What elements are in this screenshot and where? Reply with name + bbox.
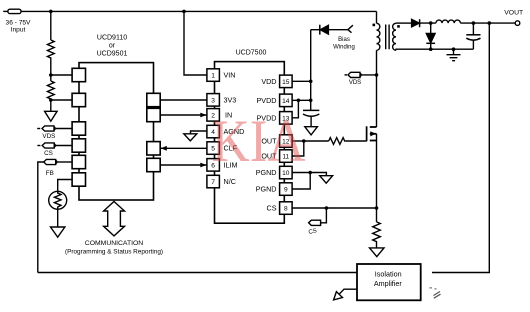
svg-text:3: 3 (211, 97, 215, 104)
svg-text:VDD: VDD (261, 77, 276, 86)
svg-text:15: 15 (282, 79, 290, 86)
svg-text:COMMUNICATION: COMMUNICATION (85, 240, 143, 247)
svg-text:CS: CS (44, 150, 53, 157)
svg-text:PVDD: PVDD (257, 96, 277, 105)
svg-text:(Programming & Status Reportin: (Programming & Status Reporting) (65, 248, 163, 255)
svg-text:VOUT: VOUT (504, 10, 523, 17)
svg-text:3V3: 3V3 (224, 95, 237, 104)
svg-text:14: 14 (282, 98, 290, 105)
svg-text:CS: CS (267, 204, 277, 213)
svg-text:UCD7500: UCD7500 (236, 49, 267, 56)
svg-text:Input: Input (11, 27, 26, 34)
svg-text:CS: CS (308, 228, 318, 236)
svg-text:Bias: Bias (338, 37, 350, 43)
svg-text:8: 8 (284, 206, 288, 213)
svg-text:Winding: Winding (333, 45, 355, 51)
svg-text:Amplifier: Amplifier (374, 279, 403, 288)
svg-text:1: 1 (211, 73, 215, 80)
svg-text:Isolation: Isolation (375, 269, 402, 278)
svg-text:VDS: VDS (42, 133, 55, 140)
svg-text:VIN: VIN (224, 71, 236, 80)
svg-text:36 - 75V: 36 - 75V (6, 20, 32, 27)
svg-text:UCD9501: UCD9501 (97, 51, 128, 58)
svg-text:7: 7 (211, 179, 215, 186)
svg-text:UCD9110: UCD9110 (97, 34, 127, 41)
svg-text:9: 9 (284, 187, 288, 194)
svg-text:FB: FB (46, 170, 54, 177)
svg-text:or: or (109, 43, 116, 50)
svg-text:PGND: PGND (256, 185, 277, 194)
svg-text:KIA: KIA (212, 109, 306, 175)
svg-text:N/C: N/C (224, 177, 236, 186)
svg-text:VDS: VDS (349, 80, 361, 86)
